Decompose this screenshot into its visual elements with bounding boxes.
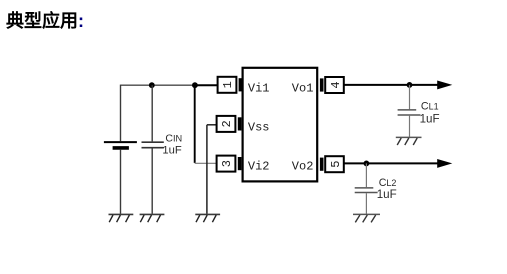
svg-text:Vo2: Vo2 [292, 160, 314, 174]
value label CL2 [379, 177, 397, 189]
svg-text:CL2: CL2 [379, 177, 397, 189]
ground (Vss) [195, 214, 220, 222]
IC label Vo2 [292, 160, 314, 174]
wire Vss vertical to ground [206, 125, 208, 214]
value label CL1 [421, 101, 439, 113]
arrow output 1 [437, 81, 452, 90]
pin 4 [320, 77, 344, 93]
pin 4 number [329, 81, 343, 88]
IC label Vi1 [248, 81, 270, 95]
svg-text:5: 5 [329, 161, 343, 168]
wire CIN bottom leg [151, 149, 153, 214]
node junction dot (CL1 tap) [407, 82, 413, 88]
ground (CIN) [140, 214, 165, 222]
wire CL1 top leg [409, 85, 411, 109]
node junction dot (CL2 tap) [364, 161, 370, 167]
pin 1 number [221, 81, 235, 88]
svg-text:3: 3 [220, 160, 234, 167]
pin 5 number [329, 161, 343, 168]
svg-text:1: 1 [221, 81, 235, 88]
svg-text:1uF: 1uF [420, 112, 440, 125]
node junction dot (Vi2 tap) [192, 82, 198, 88]
svg-text:Vi2: Vi2 [248, 160, 270, 174]
svg-text:CL1: CL1 [421, 101, 439, 113]
svg-text:1uF: 1uF [162, 145, 181, 157]
wire CIN top leg [151, 85, 153, 141]
value label 1uF (CL1) [420, 112, 440, 125]
node junction dot (CIN tap) [149, 82, 155, 88]
wire Vi2 lead to pin 3 [195, 162, 217, 164]
wire CL2 bottom leg [365, 193, 367, 214]
ground (CL2) [353, 214, 380, 222]
pin 5 [320, 156, 344, 172]
wire top rail thin segment [121, 84, 195, 86]
pin 3 number [220, 160, 234, 167]
pin 2 [217, 116, 242, 132]
wire Vi2 vertical drop [194, 85, 196, 163]
svg-text:Vss: Vss [248, 120, 270, 134]
battery [104, 142, 137, 148]
IC label Vi2 [248, 160, 270, 174]
svg-text:4: 4 [329, 81, 343, 88]
wire CL1 bottom leg [409, 116, 411, 137]
wire CL2 top leg [365, 163, 367, 187]
svg-text:CIN: CIN [165, 132, 182, 144]
wire battery top leg [120, 85, 122, 142]
ground (battery) [109, 214, 134, 222]
svg-text:Vi1: Vi1 [248, 81, 270, 95]
arrow output 2 [437, 159, 452, 168]
value label 1uF (CL2) [377, 188, 397, 201]
wire Vss lead from pin 2 [207, 124, 217, 126]
pin 1 [218, 77, 243, 93]
title 典型应用: [6, 7, 84, 33]
capacitor CIN [142, 142, 164, 148]
wire top rail to pin 1 [195, 84, 218, 86]
svg-text:2: 2 [220, 120, 234, 127]
pin 2 number [220, 120, 234, 127]
value label CIN [165, 132, 182, 144]
IC U1 body [243, 68, 318, 182]
capacitor CL1 [398, 110, 421, 115]
wire output 2 [344, 162, 439, 164]
pin 3 [217, 156, 242, 172]
value label 1uF (CIN) [162, 145, 181, 157]
wire battery bottom leg [120, 150, 122, 214]
svg-text:Vo1: Vo1 [292, 81, 314, 95]
svg-text:1uF: 1uF [377, 188, 397, 201]
ground (CL1) [396, 137, 422, 145]
wire output 1 [344, 84, 439, 86]
IC label Vss [248, 120, 270, 134]
capacitor CL2 [355, 188, 378, 193]
IC label Vo1 [292, 81, 314, 95]
